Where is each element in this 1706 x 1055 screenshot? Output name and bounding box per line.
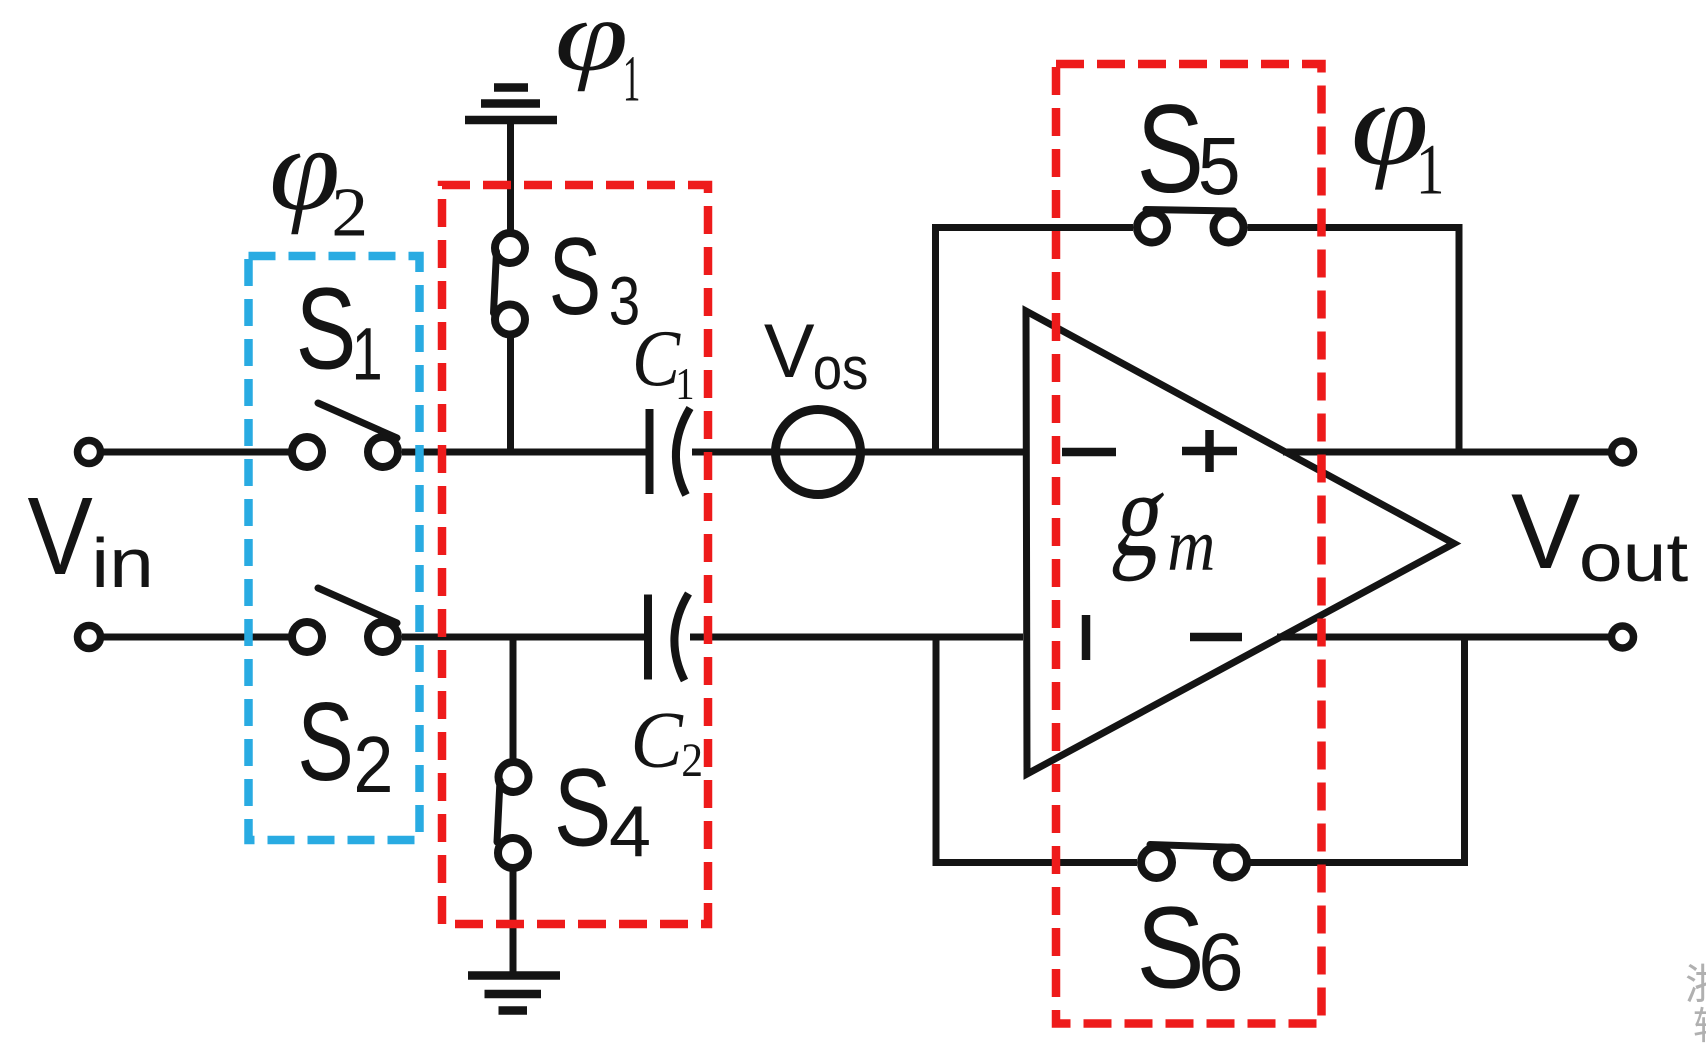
- capacitor C1: [650, 408, 691, 495]
- svg-text:φ: φ: [269, 103, 340, 235]
- ground bottom: [468, 976, 560, 1011]
- wire S1 to C1: [402, 449, 646, 456]
- wire node D down to S6 loop: [933, 637, 940, 863]
- switch S5: [1137, 210, 1244, 243]
- svg-text:2: 2: [681, 733, 703, 786]
- wire S3 to top ground: [507, 121, 514, 233]
- svg-text:1: 1: [675, 360, 694, 410]
- svg-text:φ: φ: [555, 0, 629, 92]
- svg-text:V: V: [28, 476, 93, 599]
- svg-text:1: 1: [1416, 131, 1445, 211]
- svg-text:转: 转: [1693, 1006, 1706, 1048]
- node Vout+ terminal: [1612, 441, 1634, 463]
- wire node C down to S4: [510, 637, 517, 762]
- wire feedback bottom up to output: [1461, 637, 1468, 866]
- svg-text:4: 4: [609, 791, 651, 872]
- wire feedback top right: [1248, 224, 1460, 231]
- wire feedback top left: [932, 224, 1133, 231]
- svg-text:S: S: [554, 746, 611, 869]
- capacitor C2: [648, 594, 689, 681]
- ground top: [465, 88, 557, 121]
- wire node B up to S5 loop: [932, 228, 939, 453]
- svg-text:6: 6: [1198, 917, 1244, 1008]
- svg-text:1: 1: [352, 313, 383, 396]
- phase box phi1 left (red dashed): [442, 185, 708, 924]
- node Vin+ input terminal: [78, 441, 101, 464]
- wire C2 to op-amp: [690, 634, 1023, 641]
- op-amp input plus bar mark: [1082, 615, 1091, 660]
- svg-text:m: m: [1167, 505, 1215, 587]
- switch S1: [292, 403, 398, 467]
- label gm: [1107, 446, 1176, 582]
- svg-text:1: 1: [623, 43, 640, 115]
- wire S2 to C2: [402, 634, 646, 641]
- wire C1 to op-amp: [692, 449, 1023, 456]
- svg-text:V: V: [1511, 473, 1580, 592]
- svg-text:S: S: [1137, 80, 1205, 220]
- op-amp output plus mark: [1182, 430, 1237, 472]
- switch S4: [497, 762, 529, 868]
- svg-text:浙: 浙: [1685, 961, 1706, 1008]
- svg-text:S: S: [296, 265, 357, 394]
- wire op-amp to Vout+: [1283, 449, 1612, 456]
- svg-text:5: 5: [1198, 120, 1241, 212]
- wire node A up to S3: [507, 338, 514, 452]
- svg-text:V: V: [764, 309, 815, 394]
- node Vout- terminal: [1612, 626, 1634, 648]
- phase box phi1 right (red dashed): [1056, 64, 1322, 1024]
- svg-text:2: 2: [353, 721, 393, 810]
- switch S2: [292, 588, 398, 652]
- svg-text:in: in: [91, 524, 154, 602]
- wire feedback top down to output: [1456, 224, 1463, 452]
- svg-text:C: C: [631, 696, 684, 785]
- switch S6: [1141, 845, 1247, 879]
- svg-text:C: C: [632, 315, 681, 403]
- op-amp input minus mark: [1062, 448, 1116, 457]
- svg-text:os: os: [813, 335, 869, 402]
- phase box phi2 (blue dashed): [249, 256, 420, 840]
- svg-text:2: 2: [331, 173, 368, 251]
- op-amp output minus mark: [1190, 633, 1242, 642]
- op-amp gm triangle: [1026, 311, 1454, 774]
- wire op-amp to Vout-: [1277, 634, 1612, 641]
- voltage source Vos: [776, 410, 861, 495]
- switch S3: [494, 233, 526, 335]
- svg-text:S: S: [549, 215, 601, 338]
- wire Vin+ to S1: [101, 449, 290, 456]
- wire S4 to bottom ground: [510, 868, 517, 972]
- wire feedback bottom right: [1250, 859, 1465, 866]
- wire Vin- to S2: [101, 634, 290, 641]
- svg-text:S: S: [297, 680, 354, 804]
- node Vin- input terminal: [78, 626, 101, 649]
- svg-text:out: out: [1579, 519, 1689, 596]
- svg-text:S: S: [1137, 884, 1205, 1014]
- watermark fragment: [1685, 961, 1706, 1048]
- wire feedback bottom left: [933, 859, 1138, 866]
